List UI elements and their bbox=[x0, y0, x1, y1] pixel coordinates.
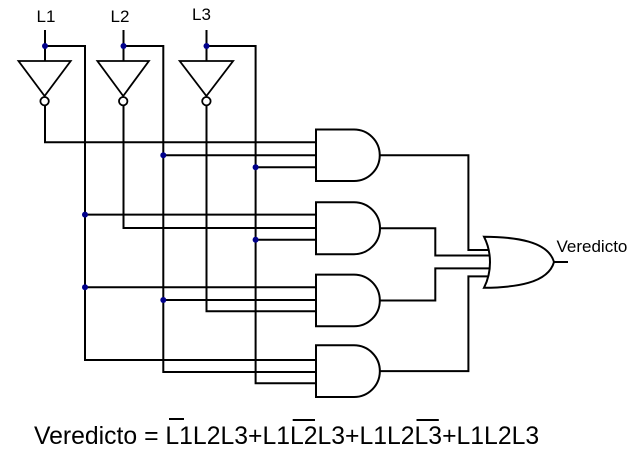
svg-text:L1: L1 bbox=[37, 7, 56, 26]
svg-text:L3: L3 bbox=[192, 5, 211, 24]
svg-text:L2: L2 bbox=[111, 7, 130, 26]
svg-text:Veredicto = L1L2L3+L1L2L3+L1L2: Veredicto = L1L2L3+L1L2L3+L1L2L3+L1L2L3 bbox=[34, 423, 539, 450]
svg-text:Veredicto: Veredicto bbox=[557, 237, 628, 256]
